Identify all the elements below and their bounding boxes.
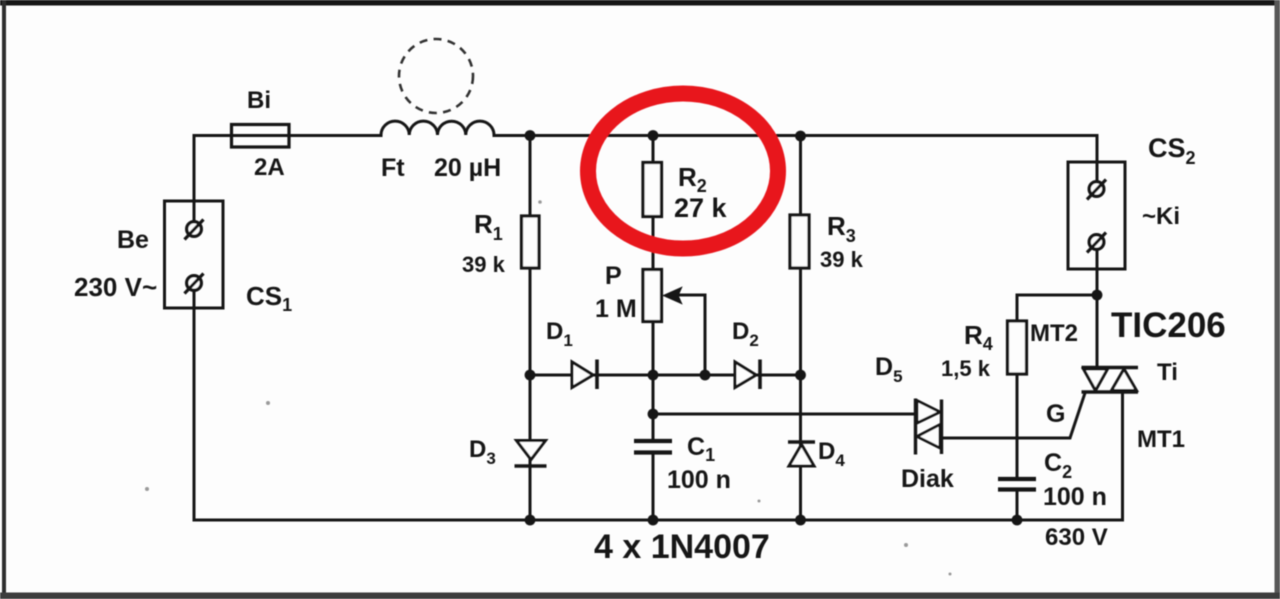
wire left vertical [193,136,196,521]
svg-text:P: P [605,262,622,290]
junction bottom C1 [648,515,659,526]
svg-text:4 x 1N4007: 4 x 1N4007 [594,528,770,566]
wire R4 branch [1017,295,1097,520]
wire diak to gate [941,393,1085,438]
scan specks [145,200,952,575]
svg-text:Diak: Diak [901,465,954,493]
svg-text:1,5 k: 1,5 k [941,356,991,381]
capacitor C1 [634,441,672,453]
diode D3 [515,441,547,467]
svg-text:39 k: 39 k [820,247,864,272]
wire top horizontal [194,134,1097,137]
svg-text:~Ki: ~Ki [1142,203,1180,230]
fuse Bi [232,125,290,148]
diode D2 [735,360,760,390]
svg-text:27 k: 27 k [674,193,728,223]
svg-text:Ti: Ti [1157,359,1178,386]
wire R3/D4 branch [799,136,802,521]
wire D1-D2 horizontal [530,374,801,377]
phi contact CS2 bottom [1087,233,1106,253]
svg-text:100 n: 100 n [667,466,731,494]
dashed circle above inductor [399,39,473,113]
wire CS2 drop MT2 [1096,136,1099,368]
diode D4 [788,442,815,466]
junction D1 right / P [648,370,659,381]
svg-text:39 k: 39 k [462,252,506,277]
svg-text:20 µH: 20 µH [434,154,501,182]
connector CS1 [165,201,224,308]
phi contact CS1 bottom [185,274,204,294]
connector CS2 [1068,162,1125,269]
diak D5 [916,399,942,455]
phi contact CS2 top [1087,180,1106,200]
wire R2/P/C1 branch [652,136,655,521]
wire bottom horizontal [194,519,1123,522]
svg-text:1 M: 1 M [595,295,637,323]
resistor R2 [643,163,662,217]
wire P wiper to D1-D2 line [676,295,705,375]
border frame right [1275,0,1280,599]
phi contact CS1 top [185,220,204,240]
potentiometer P wiper arrow [664,288,682,304]
junction top R3 [795,131,806,142]
border frame left [2,0,6,599]
triac Ti TIC206 [1082,368,1139,393]
diode D1 [572,360,597,390]
resistor R1 [522,216,540,268]
wire R1/D3 branch [529,136,532,521]
junction D1 left [525,370,536,381]
svg-text:MT1: MT1 [1137,426,1185,453]
junction bottom D4 [795,515,806,526]
svg-text:TIC206: TIC206 [1111,306,1226,345]
capacitor C2 [998,479,1036,490]
border frame top [0,0,1280,6]
red highlight ellipse around R2 [588,94,778,249]
svg-text:2A: 2A [254,154,285,181]
junction D2 right [795,370,806,381]
junction bottom C2 [1012,515,1023,526]
border frame bottom [0,593,1280,599]
junction top R2 [648,130,659,141]
junction C1 top [648,409,659,420]
svg-text:230 V~: 230 V~ [74,272,157,302]
potentiometer P body [643,270,662,322]
junction wiper [700,370,711,381]
svg-text:MT2: MT2 [1030,320,1078,347]
junction bottom D3 [525,515,536,526]
svg-text:Ft: Ft [381,154,405,182]
junction top R1 [525,130,536,141]
svg-text:Bi: Bi [247,87,271,114]
resistor R4 [1008,321,1027,374]
resistor R3 [790,215,809,268]
svg-text:100 n: 100 n [1043,483,1107,511]
svg-text:Be: Be [117,226,149,254]
inductor Ft [381,121,494,135]
junction MT2/R4 [1092,290,1103,301]
svg-text:630 V: 630 V [1045,524,1108,551]
wire C1 node to diak [653,413,914,416]
svg-text:G: G [1046,400,1065,428]
wire MT1 [1121,392,1124,520]
